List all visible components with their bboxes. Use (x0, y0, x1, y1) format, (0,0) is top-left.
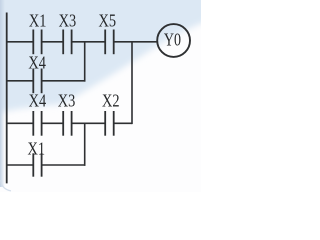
svg-text:X3: X3 (59, 10, 77, 31)
rung 1 wire: X1 to X3 (42, 41, 64, 43)
rung 2 wire: X4 to junction (42, 80, 86, 82)
contact X4 rung 3 (33, 111, 41, 136)
junction riser: rung 4 up to rung 3 (84, 123, 86, 166)
contact X3 rung 3 (63, 111, 71, 136)
label X1 rung 1 (29, 10, 47, 31)
contact X3 rung 1 (63, 30, 71, 55)
svg-text:X1: X1 (29, 10, 47, 31)
contact X2 rung 3 (105, 111, 114, 136)
rung 4 wire: X1 to junction (42, 164, 86, 166)
contact X1 rung 4 (33, 153, 41, 176)
rung 1 wire: rail to contact X1 (7, 41, 34, 43)
label X5 rung 1 (99, 10, 117, 31)
svg-text:X5: X5 (99, 10, 117, 31)
label X4 rung 2 (28, 52, 46, 73)
label X1 rung 4 (27, 138, 45, 159)
merge riser: rung 3 up to rung 1 output node (131, 42, 133, 124)
label X3 rung 1 (59, 10, 77, 31)
rung 3 wire: rail to contact X4 (7, 122, 34, 124)
rung 1 wire: X5 to coil Y0 (114, 41, 158, 43)
rung 3 wire: X3 to X2 (72, 122, 106, 124)
contact X1 rung 1 (33, 30, 41, 55)
label X4 rung 3 (29, 90, 47, 111)
label X3 rung 3 (58, 90, 76, 111)
page background with diagonal blue-to-white shading (0, 0, 213, 192)
svg-text:X4: X4 (29, 90, 47, 111)
left card edge band (0, 0, 5, 187)
svg-text:X3: X3 (58, 90, 76, 111)
card bottom-left rounded corner edge (1, 180, 11, 191)
svg-text:X1: X1 (27, 138, 45, 159)
left power rail (6, 13, 8, 184)
rung 4 parallel branch wire: rail to contact X1 (7, 164, 34, 166)
rung 1 wire: X3 to X5 (72, 41, 106, 43)
svg-text:Y0: Y0 (164, 31, 181, 50)
rung 2 parallel branch wire: rail to contact X4 (7, 80, 34, 82)
output coil Y0 circle (157, 24, 190, 57)
contact X5 rung 1 (105, 30, 114, 55)
label X2 rung 3 (102, 90, 120, 111)
junction riser: rung 2 up to rung 1 (84, 42, 86, 82)
contact X4 rung 2 (33, 69, 41, 94)
rung 3 wire: X4 to X3 (42, 122, 64, 124)
rung 3 wire: X2 to merge riser (114, 122, 132, 124)
svg-text:X4: X4 (28, 52, 46, 73)
label Y0 coil (164, 31, 181, 50)
svg-text:X2: X2 (102, 90, 120, 111)
